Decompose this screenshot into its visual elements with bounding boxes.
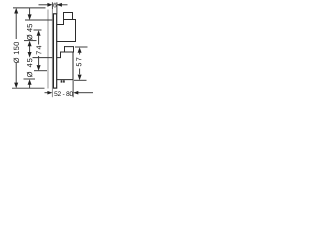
upper handle (paddle + knob side view) [57,13,76,42]
wall line (rough wall) [47,10,49,89]
dim 57 bottom arrow [78,75,82,81]
dim 6 right arrow [57,3,62,7]
dim 52-80 left arrow [47,91,52,95]
dim 52-80 (depth range, bottom) [45,80,94,97]
dim O45 upper label [27,24,33,40]
dim 57 label [76,58,81,67]
dim O45 lower bottom arrow [28,79,32,85]
dim 6 (plate thickness, top) [39,2,68,13]
dim O150 bottom arrow [14,83,18,89]
wall line (finished surface) [51,9,53,97]
dim 6 label [53,3,56,8]
dim 52-80 right arrow [73,91,78,95]
dim O150 (plate diameter, left) [12,8,46,88]
dim O45 upper (knob diameter) [24,8,52,52]
dim 74 bottom arrow [37,65,41,71]
dim 74 top arrow [37,30,41,36]
bottom tab on lower handle [60,80,65,83]
dim 57 (handle height, right) [74,47,88,80]
dim O45 lower (knob diameter) [24,58,53,89]
dim O45 lower label [27,58,33,77]
escutcheon plate (side view) [53,14,56,88]
lower handle (paddle + knob side view) [57,47,74,80]
dim O45 upper bottom arrow [28,41,32,47]
dim O150 label [14,42,20,63]
dim 74 (cartridge spacing) [34,30,48,71]
dim O150 top arrow [14,8,18,14]
dim 6 left arrow [47,3,52,7]
dim O45 lower top arrow [28,52,32,58]
dim 52-80 label [54,91,73,96]
dim O45 upper top arrow [28,14,32,20]
dim 57 top arrow [78,47,82,53]
dim 74 label [36,46,41,55]
